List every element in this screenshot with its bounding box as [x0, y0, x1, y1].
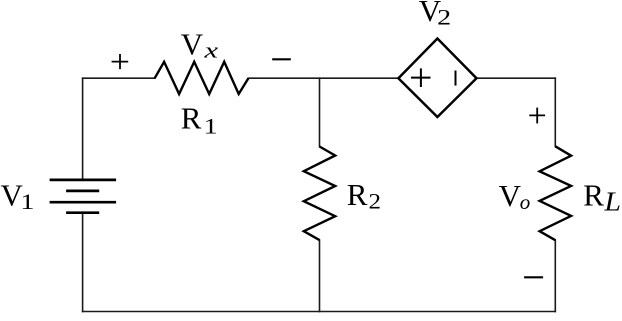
svg-text:R: R [181, 100, 202, 135]
svg-text:2: 2 [437, 5, 451, 30]
svg-text:R: R [583, 178, 604, 213]
svg-text:R: R [347, 177, 368, 212]
svg-text:1: 1 [204, 114, 218, 139]
svg-text:L: L [603, 186, 621, 216]
svg-text:V: V [181, 27, 204, 62]
svg-text:x: x [203, 37, 218, 62]
svg-text:1: 1 [20, 189, 34, 214]
svg-text:o: o [520, 190, 531, 214]
svg-text:2: 2 [369, 189, 382, 214]
svg-text:V: V [499, 178, 522, 213]
